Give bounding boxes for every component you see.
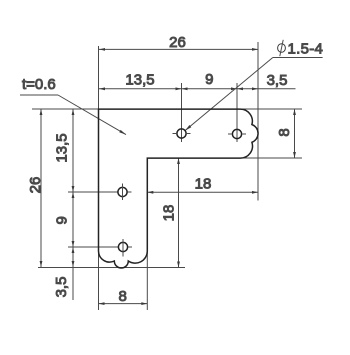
svg-text:26: 26 (169, 34, 186, 51)
svg-text:18: 18 (195, 176, 212, 193)
wire extension top-right for 8 (241, 108, 303, 110)
hole H4 vertical arm (118, 242, 127, 251)
node dim 8 bottom (99, 303, 148, 305)
svg-text:1.5-4: 1.5-4 (288, 41, 324, 58)
wire right extension line at plate right edge (257, 42, 259, 201)
wire top extension line left (plate top level) (32, 108, 99, 110)
node dim 18 vertical middle (178, 158, 180, 268)
node dim 18 horizontal middle (147, 191, 258, 193)
svg-text:3,5: 3,5 (53, 277, 70, 298)
wire tick hole1 top (181, 83, 183, 142)
hole H3 vertical arm (118, 187, 127, 196)
wire extension hole2 left level (68, 246, 118, 248)
wire left extension line at plate left edge (up to dims) (98, 46, 100, 109)
node dim 26 vertical left (40, 109, 42, 267)
node dim row 13,5 / 9 / 3,5 horizontal (99, 88, 296, 90)
svg-text:8: 8 (276, 128, 293, 136)
svg-text:3,5: 3,5 (267, 72, 288, 89)
wire extension plate bottom level long (38, 267, 185, 269)
svg-text:9: 9 (54, 216, 71, 224)
wire extension left edge down for bottom 8 (98, 251, 100, 310)
wire extension bottom-right for 8 (241, 157, 303, 159)
svg-text:13,5: 13,5 (54, 133, 71, 162)
svg-text:9: 9 (205, 71, 213, 88)
svg-text:26: 26 (27, 177, 44, 194)
node dim 26 horizontal (99, 48, 258, 50)
hole H2 top arm (232, 129, 241, 138)
svg-text:13,5: 13,5 (125, 72, 154, 89)
wire extension right arm edge down for bottom 8 (146, 251, 148, 310)
svg-text:t=0.6: t=0.6 (22, 76, 56, 93)
plate outline L bracket (99, 109, 259, 268)
svg-text:8: 8 (119, 288, 127, 305)
svg-text:18: 18 (161, 205, 178, 222)
wire tick hole2 top (236, 83, 238, 142)
node label phi1.5-4 with leader (278, 44, 286, 53)
node dim column 13,5 / 9 / 3,5 vertical (72, 109, 74, 300)
hole H1 top arm (177, 129, 186, 138)
node dim 8 vertical right (294, 109, 296, 158)
wire extension hole1 left level (68, 191, 118, 193)
